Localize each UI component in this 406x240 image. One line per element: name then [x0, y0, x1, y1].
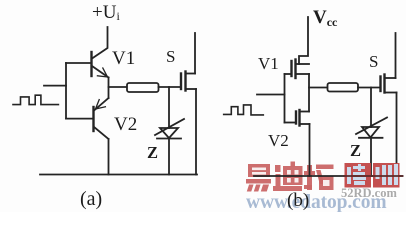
wire drain of S (a): [194, 33, 196, 74]
ground rail (a): [40, 174, 197, 176]
wire source of S to rail (b): [396, 93, 398, 177]
wire drain of S (b): [395, 33, 397, 78]
svg-text:V1: V1: [258, 54, 279, 73]
input square-wave symbol (b): [224, 105, 264, 115]
MOSFET S (b): [381, 75, 397, 93]
watermark red block 培: [345, 163, 372, 188]
wire common node V1 source / V2 drain: [308, 74, 310, 112]
wire gate bus (b): [284, 74, 286, 123]
wire V2 base lead: [66, 118, 94, 120]
svg-text:S: S: [369, 52, 378, 71]
wire V1 gate lead (b): [285, 73, 292, 75]
resistor Rg (b): [328, 83, 359, 92]
transistor V1 (NPN): [92, 52, 109, 78]
ground rail (b): [254, 175, 403, 177]
wire zener anode to rail: [168, 139, 170, 175]
svg-text:(a): (a): [80, 188, 102, 210]
wire +Ui supply to V1 collector: [92, 27, 108, 59]
wire gate node down to zener (b): [370, 88, 372, 128]
MOSFET V1 (b): [292, 60, 310, 79]
ground rail (b) repaint over watermark: [344, 175, 403, 177]
wire V2 collector to ground rail: [108, 139, 110, 175]
svg-text:Z: Z: [147, 143, 158, 162]
MOSFET V2 (b): [296, 110, 310, 126]
svg-text:+Ui: +Ui: [92, 2, 120, 23]
resistor Rg (a): [127, 83, 159, 92]
watermark red character 拓: [304, 165, 334, 191]
watermark red block 训: [373, 163, 400, 188]
zener diode Z (a): [155, 119, 184, 139]
watermark red character 易: [246, 164, 271, 192]
svg-text:(b): (b): [287, 190, 309, 211]
zener diode Z (b): [356, 118, 387, 138]
input square-wave symbol: [13, 95, 58, 104]
svg-text:V2: V2: [114, 114, 137, 135]
wire resistor to gate of S: [159, 86, 182, 88]
wire source of S to rail (a): [195, 89, 197, 175]
wire input: [44, 85, 66, 87]
wire zener anode to rail (b): [370, 138, 372, 176]
wire emitter junction node: [108, 78, 110, 99]
watermark red character 迪: [273, 162, 303, 192]
wire resistor to gate of S (b): [358, 87, 381, 89]
wire input bus vertical: [65, 63, 67, 119]
svg-text:Z: Z: [350, 141, 361, 160]
wire V2 source to rail (b): [309, 124, 311, 176]
wire V2 gate lead (b): [285, 122, 297, 124]
svg-text:Vcc: Vcc: [313, 7, 338, 29]
svg-text:S: S: [166, 47, 175, 66]
svg-text:V1: V1: [112, 48, 135, 69]
transistor V2 (PNP): [94, 98, 109, 139]
MOSFET S (a): [181, 72, 196, 91]
wire output node to gate resistor: [109, 86, 128, 88]
wire output tap to resistor (b): [309, 87, 328, 89]
svg-text:www.edatop.com: www.edatop.com: [246, 192, 387, 212]
wire V1 base lead: [66, 62, 92, 64]
svg-text:V2: V2: [268, 131, 289, 150]
wire Vcc to V1 drain: [299, 17, 308, 64]
wire input (b): [257, 94, 285, 96]
wire gate node down to zener: [168, 87, 170, 128]
